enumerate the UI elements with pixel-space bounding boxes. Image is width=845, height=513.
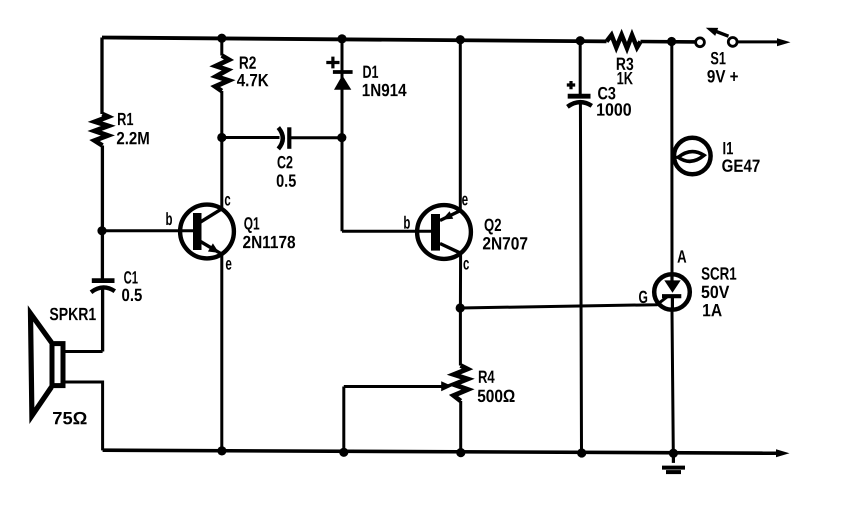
wire R4 wiper: [344, 385, 443, 388]
transistor Q1 circle: [180, 205, 234, 259]
svg-text:0.5: 0.5: [122, 285, 143, 305]
transistor Q2 emitter line: [440, 211, 460, 221]
diode D1 cathode bar: [333, 70, 353, 74]
wire R4 bottom: [459, 401, 462, 453]
wire speaker top terminal: [66, 350, 103, 353]
svg-text:9V +: 9V +: [707, 66, 739, 86]
svg-text:e: e: [462, 189, 469, 209]
wire Q2 base: [342, 230, 432, 233]
svg-text:D1: D1: [363, 62, 379, 82]
diode D1 plus sign: [326, 57, 339, 69]
svg-text:b: b: [166, 209, 173, 229]
lamp I1 filament line: [673, 156, 680, 160]
node top R2: [217, 34, 226, 43]
wire R2 branch vertical: [220, 38, 223, 209]
wire R4 wiper leg: [342, 387, 345, 453]
switch S1 left contact: [696, 38, 705, 47]
wire bottom rail: [103, 450, 776, 453]
resistor R2: [215, 56, 229, 92]
svg-text:A: A: [677, 247, 687, 267]
svg-text:G: G: [639, 287, 648, 307]
SCR1 circle: [654, 274, 690, 310]
transistor Q1 collector line: [201, 209, 222, 222]
node bottom wiper: [339, 448, 348, 457]
svg-text:0.5: 0.5: [276, 171, 296, 191]
node top lamp: [667, 37, 676, 46]
capacitor C3 plate curved: [567, 102, 591, 107]
svg-text:1000: 1000: [596, 100, 632, 120]
svg-text:R1: R1: [117, 109, 133, 129]
wire lamp SCR branch vertical: [672, 42, 674, 454]
wire Q2 emitter to top rail: [459, 40, 462, 211]
wire Q1 emitter to bottom rail: [220, 254, 223, 451]
switch S1 lever arrow: [706, 28, 718, 36]
wire Q2 collector down: [459, 253, 462, 365]
capacitor C3 plate flat: [568, 94, 591, 99]
SCR1 cathode bar: [662, 294, 681, 298]
node Q1 base: [97, 226, 106, 235]
node bottom C3: [577, 448, 586, 457]
SCR1 anode line inside: [670, 274, 673, 281]
svg-text:e: e: [225, 254, 232, 274]
svg-text:Q1: Q1: [244, 213, 260, 233]
wire switch output arrow: [777, 38, 791, 46]
wire speaker bottom terminal: [66, 382, 103, 450]
svg-text:4.7K: 4.7K: [237, 70, 269, 90]
svg-text:SPKR1: SPKR1: [49, 304, 96, 324]
resistor R3: [607, 35, 641, 48]
transistor Q1 emitter arrow: [208, 243, 219, 253]
wire top rail left: [102, 38, 607, 42]
node Q2 collector: [456, 303, 465, 312]
capacitor C1 plate curved: [91, 287, 115, 292]
wire left rail: [100, 38, 104, 352]
svg-text:2.2M: 2.2M: [116, 128, 149, 148]
svg-text:S1: S1: [710, 48, 726, 68]
node bottom ground: [669, 449, 678, 458]
svg-text:1N914: 1N914: [362, 80, 407, 100]
wire top rail right of R3: [641, 40, 696, 44]
capacitor C3 branch vertical: [580, 41, 581, 453]
svg-text:R4: R4: [478, 367, 495, 387]
wire C2 left: [222, 136, 280, 139]
svg-text:c: c: [224, 189, 230, 209]
node C2 right: [337, 133, 346, 142]
wire gate node to SCR: [460, 297, 667, 308]
svg-text:2N1178: 2N1178: [242, 232, 295, 252]
diode D1 triangle: [334, 75, 351, 90]
svg-text:SCR1: SCR1: [701, 264, 737, 284]
SCR1 triangle: [664, 280, 680, 292]
switch S1 right contact: [728, 38, 737, 47]
transistor Q1 emitter line: [201, 242, 222, 255]
svg-text:Q2: Q2: [484, 215, 502, 235]
ground bar 2: [666, 470, 681, 474]
svg-text:1K: 1K: [617, 68, 634, 88]
svg-text:C2: C2: [277, 152, 293, 172]
lamp I1 circle: [674, 138, 711, 175]
svg-text:c: c: [463, 254, 469, 274]
capacitor C2 plate curved: [278, 128, 283, 149]
lamp I1 lens: [678, 152, 704, 162]
svg-text:500Ω: 500Ω: [477, 386, 515, 406]
svg-text:1A: 1A: [702, 300, 722, 320]
transistor Q2 emitter arrow: [442, 211, 453, 219]
switch S1 lever: [711, 30, 729, 37]
transistor Q2 collector line: [440, 244, 461, 254]
node bottom R4: [456, 448, 465, 457]
speaker SPKR1 frame: [52, 344, 63, 386]
transistor Q2 base bar: [431, 214, 440, 251]
transistor Q2 circle: [417, 205, 471, 259]
resistor R4: [454, 366, 468, 402]
SCR1 cathode line inside: [671, 296, 674, 310]
svg-text:GE47: GE47: [722, 156, 761, 176]
svg-text:2N707: 2N707: [482, 233, 528, 253]
wire Q1 base: [102, 229, 194, 232]
resistor R1: [95, 114, 109, 146]
wire C2 right: [289, 136, 342, 139]
wire R4 wiper arrow head: [441, 381, 452, 391]
node top C3: [576, 36, 585, 45]
node C2 left: [217, 133, 226, 142]
wire bottom rail arrow: [776, 449, 790, 457]
svg-text:b: b: [403, 213, 410, 233]
wire switch output: [737, 40, 778, 43]
capacitor C3 plus sign: [567, 81, 575, 89]
speaker SPKR1 cone: [31, 313, 52, 415]
node top Q2: [456, 35, 465, 44]
wire D1 branch vertical: [341, 39, 344, 231]
ground bar 1: [662, 466, 685, 470]
svg-text:75Ω: 75Ω: [52, 408, 87, 428]
capacitor C1 plate flat: [92, 278, 115, 283]
node bottom Q1: [217, 446, 226, 455]
node top D1: [337, 34, 346, 43]
transistor Q1 base bar: [193, 213, 202, 250]
capacitor C2 plate flat: [287, 127, 291, 149]
ground stub: [672, 453, 675, 463]
svg-text:50V: 50V: [701, 282, 729, 302]
